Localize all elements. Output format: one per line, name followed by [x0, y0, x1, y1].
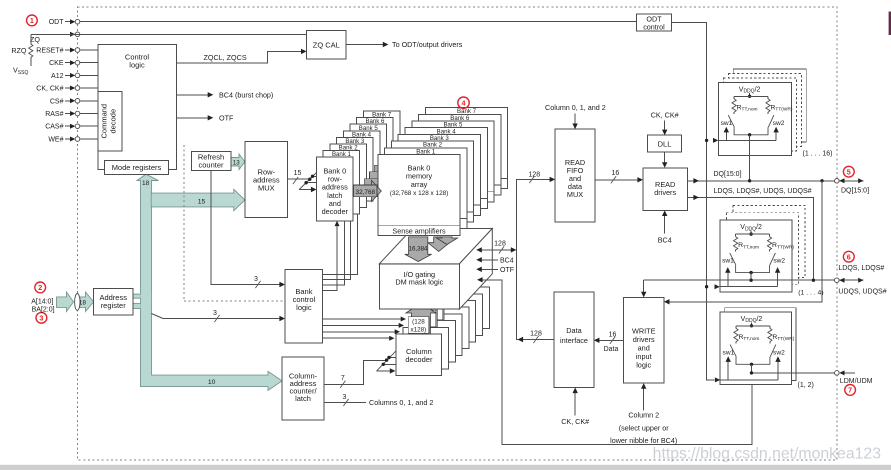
wire: DM mask path from LDM/UDM pad	[482, 280, 753, 445]
svg-text:counter: counter	[198, 161, 224, 170]
wire ODT to ODT control	[80, 21, 637, 23]
svg-text:3: 3	[343, 394, 347, 401]
svg-text:BC4 (burst chop): BC4 (burst chop)	[219, 90, 273, 99]
svg-text:4: 4	[462, 98, 466, 107]
wire: DLL to READ drivers	[664, 152, 666, 163]
bus 18: internal address bus trunk with 10-bit branch to column counter	[137, 174, 282, 390]
svg-text:A[14:0]: A[14:0]	[31, 298, 53, 305]
svg-text:sw2: sw2	[773, 258, 785, 265]
block: Data interface	[554, 292, 594, 388]
wire: write data feed to WRITE drivers	[669, 181, 823, 302]
svg-text:control: control	[643, 23, 665, 32]
bus 15: row address to Row-address MUX	[151, 189, 245, 210]
svg-text:Data: Data	[566, 326, 582, 335]
block: WRITE drivers and input logic	[624, 297, 664, 383]
block: Column-address counter/latch	[282, 357, 324, 420]
svg-text:RZQ: RZQ	[11, 46, 27, 55]
svg-text:CS#: CS#	[50, 98, 64, 105]
svg-text:ODT: ODT	[49, 19, 65, 26]
svg-text:CK, CK#: CK, CK#	[36, 86, 63, 93]
svg-text:logic: logic	[636, 361, 651, 370]
svg-text:1: 1	[30, 16, 34, 25]
wire 16: read data to READ drivers	[595, 179, 638, 181]
svg-text:15: 15	[294, 170, 302, 177]
svg-text:DQ[15:0]: DQ[15:0]	[714, 171, 742, 178]
svg-text:Data: Data	[604, 346, 619, 353]
bus 32,768: echo steps	[364, 179, 378, 186]
svg-text:sw1: sw1	[722, 258, 734, 265]
wire: DQS termination tap	[750, 273, 752, 281]
svg-text:BC4: BC4	[658, 235, 672, 244]
svg-text:16,384: 16,384	[409, 245, 428, 252]
svg-text:decoder: decoder	[322, 207, 349, 216]
svg-text:Column 0, 1, and 2: Column 0, 1, and 2	[545, 103, 606, 112]
marker 7 (DM note)	[845, 385, 856, 396]
marker 1 (ODT note)	[27, 15, 38, 26]
bus 32,768: arrowhead and value label	[372, 180, 382, 201]
termination network DQS: box	[720, 220, 792, 292]
svg-text:(1 . . . 4): (1 . . . 4)	[798, 290, 823, 297]
stack: Bank 0-7 memory arrays with sense amplifiers	[425, 108, 507, 189]
svg-text:5: 5	[847, 167, 851, 176]
svg-text:MUX: MUX	[258, 184, 275, 193]
switch sw2 (DQ)	[768, 115, 774, 127]
svg-text:16: 16	[612, 170, 620, 177]
svg-text:6: 6	[847, 252, 851, 261]
wire: DQ termination tap	[749, 135, 751, 181]
wire: DM termination tap	[751, 364, 753, 373]
bus 128: internal read/write data bus	[517, 179, 551, 339]
svg-text:sw1: sw1	[721, 120, 733, 127]
ODT switch drive (DQS)	[720, 286, 778, 288]
svg-text:7: 7	[341, 375, 345, 382]
resistor RTT(WR) (DQS)	[769, 234, 771, 237]
svg-text:LDQS, LDQS#: LDQS, LDQS#	[838, 265, 884, 272]
svg-text:(select upper or: (select upper or	[619, 423, 670, 432]
svg-text:BC4: BC4	[500, 257, 514, 264]
svg-text:Column 2: Column 2	[628, 410, 659, 419]
svg-text:UDQS, UDQS#: UDQS, UDQS#	[838, 288, 886, 295]
termination network DQS: stacked echoes	[733, 205, 805, 277]
svg-text:drivers: drivers	[654, 188, 676, 197]
wire: ODT control line to termination switches	[671, 23, 714, 380]
block: ODT control	[637, 14, 672, 31]
svg-text:18: 18	[79, 299, 86, 306]
svg-text:RESET#: RESET#	[36, 48, 63, 55]
stack: Bank 0-7 row-address latch and decoder	[363, 111, 400, 175]
block: Mode registers	[104, 161, 168, 175]
resistor RTT(WR) (DM)	[769, 326, 771, 329]
block: Command decode	[98, 91, 122, 151]
ODT switch drive (DQ)	[718, 139, 776, 141]
svg-text:DLL: DLL	[658, 140, 672, 149]
wire 3: refresh counter to Bank control logic	[211, 171, 280, 285]
block: DLL	[647, 135, 681, 152]
bus 13: refresh row address to MUX	[231, 154, 245, 170]
svg-text:ZQCL, ZQCS: ZQCL, ZQCS	[204, 53, 247, 62]
junction: ODT line to DQ termination	[705, 139, 708, 142]
svg-text:x128): x128)	[411, 327, 427, 334]
svg-text:LDQS, LDQS#, UDQS, UDQS#: LDQS, LDQS#, UDQS, UDQS#	[714, 188, 812, 195]
svg-text:DQ[15:0]: DQ[15:0]	[841, 188, 869, 195]
svg-text:WE#: WE#	[48, 137, 63, 144]
svg-text:(1 . . . 16): (1 . . . 16)	[803, 151, 833, 158]
block: READ FIFO and data MUX	[555, 129, 595, 222]
bus 16,384: sense amplifiers to I/O gating	[428, 237, 450, 252]
svg-text:3: 3	[254, 276, 258, 283]
svg-text:CK, CK#: CK, CK#	[651, 110, 679, 119]
svg-text:Columns 0, 1, and 2: Columns 0, 1, and 2	[369, 398, 433, 407]
svg-text:BA[2:0]: BA[2:0]	[32, 307, 55, 314]
center tap (DQS)	[736, 265, 770, 273]
svg-text:10: 10	[208, 379, 216, 386]
block: I/O gating / DM mask logic	[379, 229, 492, 264]
svg-text:MUX: MUX	[567, 190, 583, 199]
switch sw1 (DQS)	[730, 253, 736, 265]
resistor RTT(WR) (DQ)	[767, 96, 769, 99]
wire 15: row address fan-out to bank latches	[288, 178, 310, 180]
markers 2,3 and inputs A[14:0] BA[2:0]	[35, 282, 46, 293]
bus width marker 18 (capsule)	[75, 294, 80, 311]
signal BC4 (burst chop)	[176, 94, 208, 96]
bus: Address register output stubs	[133, 294, 141, 298]
marker 4 (bank note)	[458, 97, 469, 108]
svg-text:interface: interface	[560, 336, 588, 345]
svg-text:2: 2	[38, 283, 42, 292]
signal OTF	[176, 117, 208, 119]
wire LDM/UDM pad net	[752, 372, 837, 374]
svg-text:7: 7	[848, 386, 852, 395]
stack: Bank 0-7 column decoders	[444, 287, 490, 329]
svg-text:Mode registers: Mode registers	[112, 163, 162, 172]
switch sw2 (DM)	[770, 345, 776, 357]
termination network DM: stacked echoes	[725, 308, 796, 381]
svg-text:To ODT/output drivers: To ODT/output drivers	[392, 40, 463, 49]
wire 3: Columns 0, 1, and 2	[324, 401, 366, 403]
switch sw2 (DQS)	[770, 253, 776, 265]
wires: bank control to column decoders	[323, 318, 401, 320]
dashed control line to Bank control logic	[183, 145, 185, 301]
svg-text:(32,768 x 128 x 128): (32,768 x 128 x 128)	[390, 190, 449, 197]
svg-text:logic: logic	[129, 61, 145, 70]
svg-text:128: 128	[530, 331, 542, 338]
wire to ODT/output drivers	[346, 44, 383, 46]
signal OTF into I/O gating	[481, 268, 498, 270]
svg-text:Command: Command	[100, 104, 109, 139]
svg-text:15: 15	[198, 198, 206, 205]
wire ZQCL, ZQCS	[176, 51, 301, 63]
svg-text:DM mask logic: DM mask logic	[395, 278, 443, 287]
signal BC4 into I/O gating	[481, 259, 498, 261]
svg-text:CAS#: CAS#	[45, 124, 63, 131]
svg-text:ZQ CAL: ZQ CAL	[313, 40, 340, 49]
wire 128: Data interface to internal bus	[522, 339, 554, 341]
wire: ODT line into DM termination	[715, 377, 720, 382]
termination network DM: box	[720, 312, 791, 385]
center tap (DM)	[736, 357, 770, 365]
svg-text:CKE: CKE	[49, 60, 64, 67]
switch sw1 (DM)	[730, 345, 736, 357]
wires: bank select to row-address latches	[323, 226, 337, 291]
svg-text:decoder: decoder	[405, 355, 433, 364]
svg-text:(128: (128	[412, 318, 425, 325]
wire ZQ to ZQ CAL	[31, 33, 307, 35]
resistor RZQ	[30, 34, 32, 44]
svg-text:LDM/UDM: LDM/UDM	[840, 378, 873, 385]
wire 128: bidirectional to I/O gating	[481, 249, 512, 251]
svg-text:logic: logic	[296, 303, 312, 312]
svg-text:sw2: sw2	[773, 349, 785, 356]
svg-text:RAS#: RAS#	[45, 111, 63, 118]
svg-text:128: 128	[528, 171, 540, 178]
svg-text:OTF: OTF	[500, 267, 514, 274]
svg-text:13: 13	[233, 159, 240, 166]
wire DQ[15:0] pad net	[688, 180, 837, 182]
block: Refresh counter	[191, 152, 231, 171]
termination network DQ: box	[718, 82, 791, 155]
bus (128 x128): column select into I/O gating	[420, 292, 450, 321]
block: Address register	[94, 288, 133, 315]
termination network DQ: stacked echoes	[733, 69, 806, 142]
wire 3: bank address to Bank control logic	[151, 314, 163, 319]
svg-text:lower nibble for BC4): lower nibble for BC4)	[610, 436, 677, 445]
svg-text:OTF: OTF	[219, 113, 234, 122]
resistor RTT,nom (DM)	[735, 326, 737, 329]
block: Bank control logic	[285, 269, 323, 343]
svg-text:latch: latch	[295, 394, 311, 403]
block: READ drivers	[643, 168, 688, 211]
svg-text:CK, CK#: CK, CK#	[561, 417, 589, 426]
svg-text:ZQ: ZQ	[30, 35, 40, 44]
resistor RTT,nom (DQ)	[733, 96, 735, 99]
block: Control logic	[98, 44, 176, 169]
wire 16 Data: WRITE drivers to Data interface	[599, 339, 624, 341]
ODT switch drive (DM)	[720, 379, 778, 381]
svg-text:(1, 2): (1, 2)	[798, 382, 814, 389]
svg-text:Sense amplifiers: Sense amplifiers	[392, 226, 446, 235]
bus: A[14:0] BA[2:0] input arrow	[57, 292, 74, 312]
marker 5 (DQ note)	[843, 166, 854, 177]
svg-text:18: 18	[142, 180, 150, 187]
svg-text:register: register	[101, 301, 127, 310]
svg-text:16: 16	[609, 331, 617, 338]
resistor RTT,nom (DQS)	[735, 234, 737, 237]
svg-text:3: 3	[213, 310, 217, 317]
marker 6 (DQS note)	[843, 251, 854, 262]
svg-text:sw2: sw2	[773, 120, 785, 127]
junction: ODT line to DQS termination	[705, 285, 708, 288]
center tap (DQ)	[734, 127, 768, 135]
block: ZQ CAL	[307, 31, 347, 59]
switch sw1 (DQ)	[728, 115, 734, 127]
svg-text:array: array	[411, 180, 428, 189]
svg-text:32,768: 32,768	[356, 189, 376, 196]
svg-text:A12: A12	[51, 73, 64, 80]
svg-text:decode: decode	[109, 109, 118, 134]
wire 7: column address fan-out to column decoders	[324, 360, 387, 384]
block: Row-address MUX	[245, 141, 288, 217]
wire: DQS strobes from READ drivers	[688, 197, 814, 280]
svg-text:sw1: sw1	[723, 349, 735, 356]
svg-text:3: 3	[39, 313, 43, 322]
wire LDQS/UDQS pad net	[644, 280, 837, 292]
